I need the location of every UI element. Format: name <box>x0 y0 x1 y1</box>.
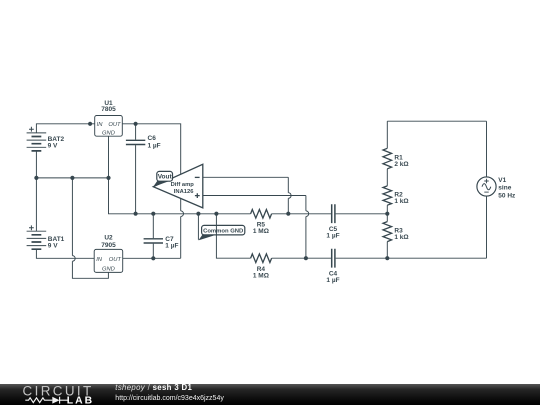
svg-text:1 µF: 1 µF <box>148 142 161 149</box>
resistor R3 <box>383 222 409 242</box>
svg-text:LAB: LAB <box>67 396 94 405</box>
wire R4 to C4 <box>272 257 331 259</box>
wire R1-R2 <box>386 169 388 186</box>
svg-text:Common GND: Common GND <box>203 228 243 234</box>
wire U1 OUT to op-amp V+ pin <box>122 124 180 175</box>
wire BAT1+ up to mid bus <box>35 178 37 231</box>
wire U2 OUT line <box>123 257 181 259</box>
voltage regulator U2 7905 <box>94 234 123 272</box>
svg-text:GND: GND <box>102 267 115 273</box>
svg-text:7805: 7805 <box>101 106 116 113</box>
svg-text:OUT: OUT <box>109 257 122 263</box>
wire U1 GND to bus <box>108 136 110 178</box>
svg-text:9 V: 9 V <box>48 242 58 249</box>
resistor R1 <box>383 148 409 169</box>
junction U2-GND branch/bus <box>70 176 74 180</box>
resistor R2 <box>383 186 409 205</box>
junction C6 bottom on common rail <box>134 212 138 216</box>
wire bus-to-R4 vertical (over flag) <box>216 214 250 258</box>
svg-text:tshepoy / sesh 3 D1: tshepoy / sesh 3 D1 <box>115 383 192 392</box>
wire BAT2+ to U1 IN <box>36 124 94 133</box>
wire op-amp plus input with hop <box>203 196 309 259</box>
junction U1 OUT / C6 <box>134 122 138 126</box>
wire R1 top <box>386 121 388 148</box>
battery BAT2 <box>27 127 65 151</box>
svg-text:50 Hz: 50 Hz <box>498 192 516 199</box>
junction divider bottom / bottom rail <box>385 256 389 260</box>
capacitor C4 <box>326 249 339 284</box>
voltage source V1 <box>477 177 516 199</box>
svg-text:Vout: Vout <box>158 174 173 181</box>
junction minus input / common rail <box>286 212 290 216</box>
svg-text:INA126: INA126 <box>174 189 194 195</box>
footer url text <box>115 395 224 402</box>
junction C7 bottom <box>151 256 155 260</box>
svg-text:1 MΩ: 1 MΩ <box>253 228 269 235</box>
svg-text:http://circuitlab.com/c93e4x6j: http://circuitlab.com/c93e4x6jzz54y <box>115 395 224 402</box>
footer bar <box>0 384 540 405</box>
capacitor C7 <box>144 236 179 249</box>
op-amp U3 INA126 <box>153 164 203 208</box>
svg-text:GND: GND <box>102 131 115 137</box>
svg-text:U2: U2 <box>104 234 113 241</box>
wire V1 top <box>486 121 488 177</box>
battery BAT1 <box>27 225 65 249</box>
wire V1 bottom <box>486 196 488 258</box>
junction on U1 IN wire <box>88 122 92 126</box>
svg-text:IN: IN <box>96 257 103 263</box>
wire C7 branch <box>152 214 154 258</box>
voltage regulator U1 7805 <box>95 100 123 137</box>
svg-text:1 µF: 1 µF <box>326 232 339 239</box>
wire top rail <box>387 120 486 122</box>
svg-text:IN: IN <box>97 122 104 128</box>
wire U2 OUT up to op-amp V- pin with hop <box>181 198 184 258</box>
resistor R4 <box>251 254 272 280</box>
svg-text:1 µF: 1 µF <box>165 242 178 249</box>
svg-text:sine: sine <box>498 185 511 192</box>
resistor R5 <box>251 210 272 235</box>
wire C5 to R divider <box>336 213 388 215</box>
svg-text:9 V: 9 V <box>48 143 58 150</box>
svg-text:1 kΩ: 1 kΩ <box>394 198 408 205</box>
svg-text:C6: C6 <box>148 135 157 142</box>
junction plus input / R4 line <box>304 256 308 260</box>
wire U2 GND return with hop <box>72 178 108 278</box>
junction BAT2/bus <box>34 176 38 180</box>
CircuitLab logo CIRCUIT <box>23 384 94 399</box>
capacitor C5 <box>326 204 339 239</box>
wire mid ground bus <box>36 177 108 179</box>
junction U1-GND/bus <box>106 176 110 180</box>
wire BAT1- to U2 IN <box>36 249 94 258</box>
junction divider mid / common rail <box>385 212 389 216</box>
svg-text:1 µF: 1 µF <box>326 277 339 284</box>
svg-text:OUT: OUT <box>108 122 121 128</box>
CircuitLab logo squiggle resistor+diode <box>25 397 68 404</box>
junction C7 top on common rail <box>151 212 155 216</box>
svg-text:1 MΩ: 1 MΩ <box>253 272 269 279</box>
svg-text:Diff amp: Diff amp <box>171 182 195 188</box>
wire Common GND anchor stub <box>197 214 199 240</box>
wire R2-R3 <box>386 205 388 221</box>
CircuitLab logo LAB <box>67 396 94 405</box>
wire bus drop to common rail <box>109 178 251 214</box>
svg-text:7905: 7905 <box>101 242 116 249</box>
svg-text:2 kΩ: 2 kΩ <box>394 161 408 168</box>
net flag Common GND <box>198 225 244 240</box>
svg-text:1 kΩ: 1 kΩ <box>394 234 408 241</box>
capacitor C6 <box>126 135 161 149</box>
svg-text:V1: V1 <box>498 177 506 184</box>
wire C4 to bottom rail <box>336 257 487 259</box>
wire BAT2- down to mid bus <box>35 151 37 178</box>
footer title text <box>115 383 192 392</box>
junction Common GND anchor <box>196 212 200 216</box>
wire R3 bottom <box>386 242 388 259</box>
wire R5 to C5 <box>272 213 331 215</box>
net flag Vout <box>153 171 172 187</box>
wire C6 branch <box>135 124 137 214</box>
junction bus to R4 drop <box>214 212 218 216</box>
wire op-amp minus input with hop <box>203 177 291 214</box>
